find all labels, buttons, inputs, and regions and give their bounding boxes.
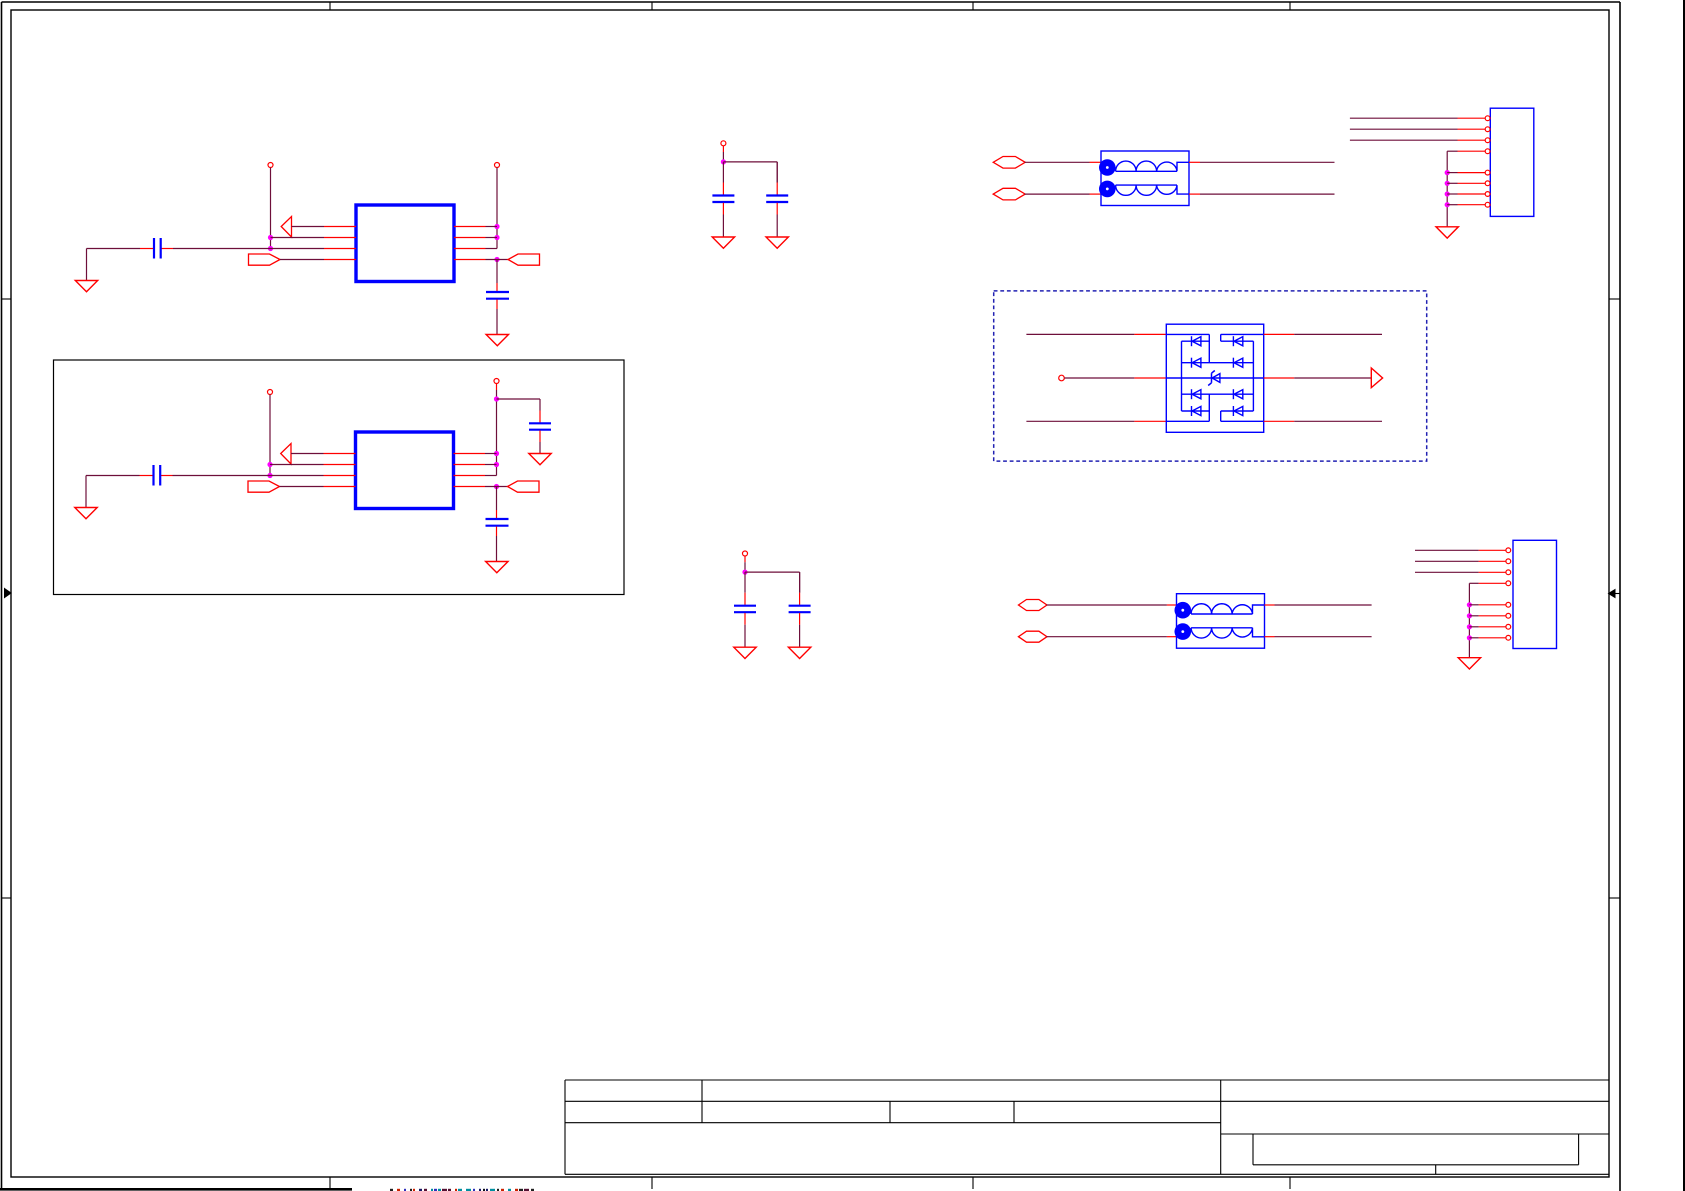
junction [circuit 2] — [494, 451, 499, 456]
wire — [1064, 377, 1166, 379]
decoupling capacitor [circuit 1] — [486, 283, 509, 309]
wire [top bypass pair] — [776, 215, 778, 238]
wire [circuit 1] — [486, 226, 498, 228]
wire — [1189, 193, 1335, 195]
IC body [circuit 2] — [356, 432, 454, 509]
diode row 1 [ESD array U3] — [1182, 336, 1254, 346]
winding 1 [choke T2] — [1175, 602, 1265, 619]
ground [circuit 1] — [75, 281, 97, 292]
wire [circuit 1] — [486, 237, 498, 239]
wire — [1264, 420, 1382, 422]
ground [circuit 2] — [75, 508, 97, 519]
wire [bottom bypass pair] — [745, 572, 800, 593]
wire [circuit 1] — [486, 259, 509, 261]
wire [top bypass pair] — [722, 162, 724, 183]
capacitor (series) [circuit 1] — [140, 238, 173, 259]
wire [connector J2] — [1469, 583, 1478, 657]
wire [circuit 2] — [497, 399, 541, 411]
IC pin stubs [circuit 1] — [324, 227, 486, 260]
wire [circuit 2] — [485, 475, 497, 477]
junction [circuit 2] — [494, 462, 499, 467]
wire [top bypass pair] — [722, 215, 724, 238]
junction [bottom bypass pair] — [742, 570, 747, 575]
TVS diode center [ESD array U3] — [1166, 371, 1263, 386]
wire [connector J1] — [1447, 151, 1457, 227]
internal rail left [ESD array U3] — [1181, 341, 1183, 411]
wire — [1047, 636, 1177, 638]
power pin circle P1 [circuit 2] — [268, 390, 273, 395]
connector body [connector J2] — [1513, 540, 1557, 648]
choke body [choke T2] — [1177, 594, 1265, 649]
wire [top bypass pair] — [722, 146, 724, 162]
decoupling capacitor [circuit 2] — [529, 411, 551, 443]
ground [circuit 2] — [529, 454, 551, 465]
connector pin circles and stubs [connector J1] — [1458, 116, 1491, 207]
ground [bottom bypass pair] — [734, 647, 756, 658]
junction [circuit 2] — [267, 462, 272, 467]
junction [circuit 1] — [494, 235, 499, 240]
wire — [1265, 636, 1372, 638]
wire [circuit 1] — [496, 168, 498, 249]
wires to connector pins 1-3 [connector J2] — [1415, 550, 1479, 572]
wire [bottom bypass pair] — [799, 572, 801, 593]
decoupling capacitor [top bypass pair] — [766, 183, 788, 215]
decoupling capacitor [bottom bypass pair] — [734, 593, 756, 625]
output arrow port — [1371, 368, 1382, 388]
ground [circuit 2] — [486, 562, 508, 573]
junction [circuit 2] — [494, 396, 499, 401]
wire — [1026, 420, 1166, 422]
dashed enclosure — [994, 291, 1427, 461]
wire [circuit 2] — [496, 384, 498, 476]
output port tag [circuit 1] — [249, 254, 325, 265]
wire [circuit 2] — [496, 487, 498, 511]
internal stub [ESD array U3] — [1220, 334, 1222, 421]
differential port RX- — [1018, 631, 1046, 642]
wire — [1265, 604, 1372, 606]
diode row 2 [ESD array U3] — [1182, 358, 1254, 368]
ground [connector J1] — [1436, 227, 1458, 238]
ground [circuit 1] — [486, 335, 508, 346]
internal net (bottom) [ESD array U3] — [1166, 420, 1263, 422]
wire [top bypass pair] — [723, 162, 777, 183]
wire [circuit 2] — [496, 536, 498, 562]
junction [circuit 1] — [494, 257, 499, 262]
differential port TX- — [993, 188, 1025, 200]
ground [connector J2] — [1458, 658, 1480, 669]
enclosing box around circuit 2 — [54, 360, 625, 595]
connector body [connector J1] — [1490, 108, 1534, 216]
wire — [1264, 377, 1372, 379]
differential port TX+ — [993, 157, 1025, 169]
ground [bottom bypass pair] — [788, 647, 810, 658]
winding 2 [choke T1] — [1099, 181, 1189, 198]
clipped text at screen bottom — [390, 1189, 534, 1191]
wire [circuit 2] — [485, 464, 497, 466]
connector pin circles and stubs [connector J2] — [1479, 548, 1511, 640]
wire [circuit 2] — [269, 395, 271, 476]
ground [top bypass pair] — [712, 237, 734, 248]
ground [top bypass pair] — [766, 237, 788, 248]
power pin circle [bottom bypass pair] — [743, 551, 748, 556]
winding 2 [choke T2] — [1175, 623, 1265, 640]
wires to connector pins 1-3 [connector J1] — [1350, 118, 1458, 140]
wire [circuit 1] — [87, 249, 141, 281]
junction [circuit 2] — [494, 484, 499, 489]
wire [circuit 1] — [270, 168, 272, 249]
wire [circuit 2] — [270, 464, 324, 466]
window right edge line — [1683, 0, 1685, 1191]
wire [circuit 1] — [486, 248, 498, 250]
junction [circuit 1] — [268, 246, 273, 251]
wire — [1025, 193, 1101, 195]
wire [circuit 2] — [485, 486, 508, 488]
decoupling capacitor [top bypass pair] — [712, 183, 734, 215]
wire [circuit 2] — [485, 453, 497, 455]
wire [circuit 1] — [496, 309, 498, 335]
right border zone arrow — [1609, 590, 1621, 598]
wire — [1047, 604, 1177, 606]
wire [circuit 2] — [86, 476, 140, 508]
winding 1 [choke T1] — [1099, 159, 1189, 176]
wire [top bypass pair] — [776, 162, 778, 183]
power pin circle [circuit 2] — [494, 379, 499, 384]
junctions and stubs pins 5-8 [connector J1] — [1445, 170, 1458, 207]
junction [circuit 1] — [268, 235, 273, 240]
junction [circuit 2] — [267, 473, 272, 478]
output port tag [circuit 1] — [508, 254, 540, 265]
wire [bottom bypass pair] — [744, 572, 746, 593]
IC body [circuit 1] — [356, 205, 454, 282]
IC pin stubs [circuit 2] — [324, 454, 486, 487]
input port arrow [circuit 1] — [281, 217, 324, 238]
junction [circuit 1] — [494, 224, 499, 229]
left border zone arrow — [5, 589, 12, 598]
wire [bottom bypass pair] — [744, 556, 746, 572]
wire [bottom bypass pair] — [744, 625, 746, 648]
choke body [choke T1] — [1101, 151, 1189, 206]
output port tag [circuit 2] — [248, 481, 324, 492]
differential port RX+ — [1018, 600, 1046, 611]
wire — [1264, 333, 1382, 335]
title block table — [565, 1080, 1609, 1174]
junctions and stubs pins 5-8 [connector J2] — [1467, 602, 1479, 640]
power pin circle [top bypass pair] — [721, 141, 726, 146]
wire — [1026, 333, 1166, 335]
decoupling capacitor [circuit 2] — [486, 510, 509, 536]
power pin circle P1 [circuit 1] — [268, 163, 273, 168]
wire [bottom bypass pair] — [799, 625, 801, 648]
internal net (top) [ESD array U3] — [1166, 333, 1263, 335]
diode row 4 [ESD array U3] — [1182, 406, 1254, 416]
wire [circuit 1] — [173, 248, 324, 250]
wire [circuit 1] — [496, 260, 498, 284]
input port arrow [circuit 2] — [281, 444, 324, 465]
internal stub [ESD array U3] — [1208, 334, 1210, 421]
junction [top bypass pair] — [721, 159, 726, 164]
internal rail right [ESD array U3] — [1252, 341, 1254, 411]
decoupling capacitor [bottom bypass pair] — [789, 593, 811, 625]
wire — [1025, 161, 1101, 163]
wire — [1189, 161, 1335, 163]
wire [circuit 1] — [271, 237, 325, 239]
power pin circle [circuit 1] — [495, 163, 500, 168]
wire [circuit 2] — [173, 475, 324, 477]
sheet outer border bottom (partial, clipped) — [0, 1188, 352, 1191]
diode row 3 [ESD array U3] — [1182, 389, 1254, 399]
ESD array body [ESD array U3] — [1166, 324, 1263, 432]
wire [circuit 2] — [539, 442, 541, 454]
output port tag [circuit 2] — [508, 481, 540, 492]
capacitor (series) [circuit 2] — [140, 465, 173, 486]
node pin circle — [1059, 375, 1065, 381]
